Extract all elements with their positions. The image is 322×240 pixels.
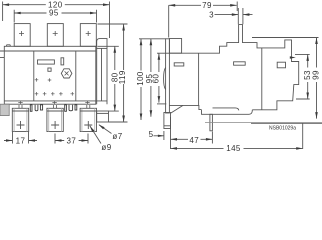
svg-text:ø7: ø7 [112,132,122,141]
svg-text:37: 37 [67,136,77,145]
svg-text:119: 119 [118,70,127,84]
svg-text:17: 17 [16,136,26,145]
svg-text:47: 47 [189,136,199,145]
svg-text:3: 3 [209,10,214,19]
svg-text:5: 5 [149,130,154,139]
svg-text:99: 99 [311,70,320,80]
svg-text:100: 100 [136,71,145,86]
svg-text:60: 60 [152,74,161,84]
svg-text:NSB01029a: NSB01029a [269,125,296,131]
svg-text:145: 145 [226,144,241,153]
svg-text:95: 95 [49,9,59,18]
svg-text:ø9: ø9 [101,143,111,152]
svg-text:79: 79 [202,1,212,10]
